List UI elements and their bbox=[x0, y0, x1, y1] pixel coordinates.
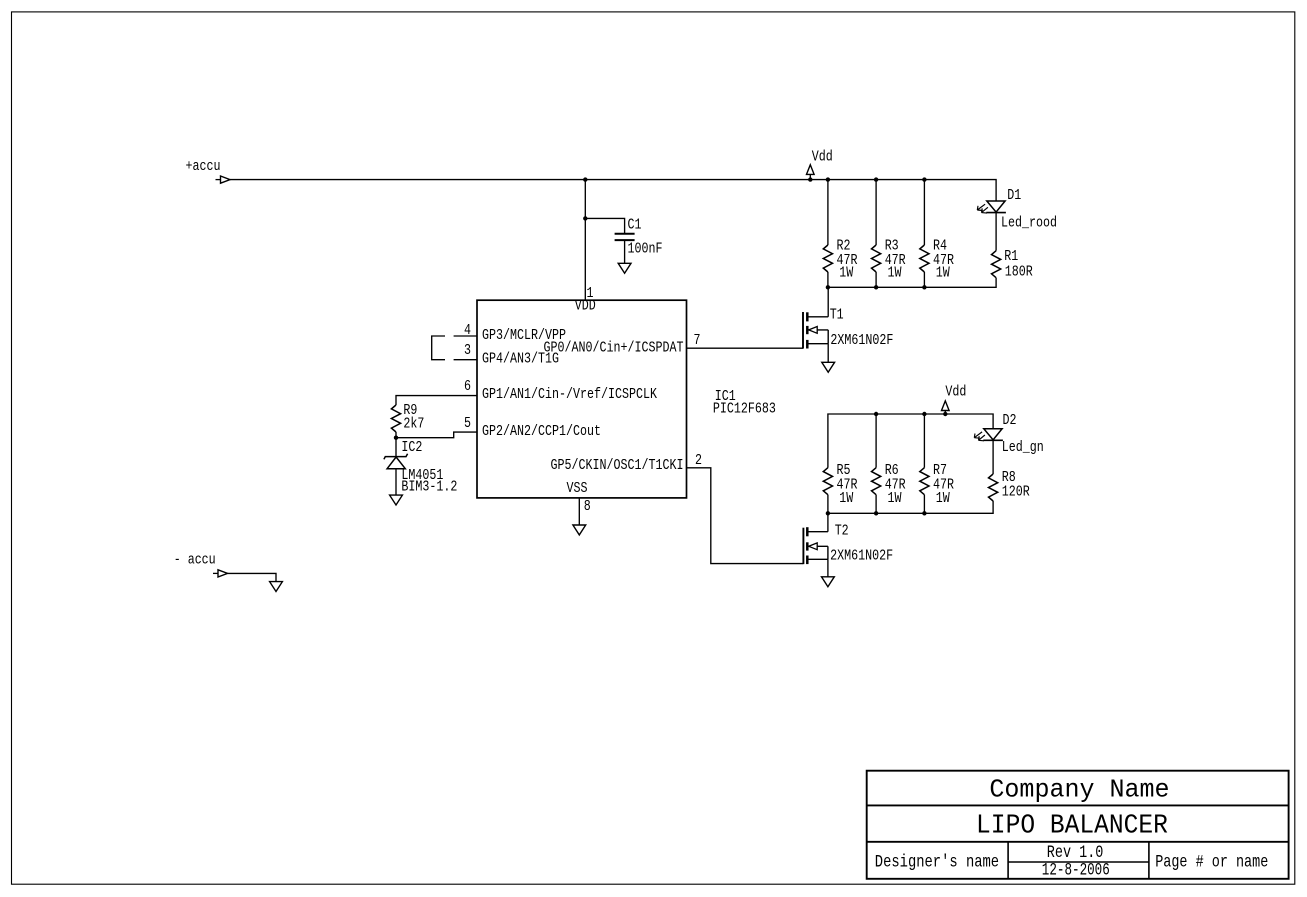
svg-text:1: 1 bbox=[587, 285, 594, 302]
junction T2 drain/rail bbox=[826, 511, 830, 515]
wire C1 branch bbox=[585, 218, 624, 233]
resistor R1 180R bbox=[992, 248, 1033, 281]
ground bbox=[270, 582, 283, 592]
svg-text:PIC12F683: PIC12F683 bbox=[713, 400, 776, 417]
wire bottom rail 1 bbox=[828, 278, 996, 288]
junction R6/rail bbox=[874, 412, 878, 416]
svg-text:6: 6 bbox=[464, 378, 471, 395]
svg-text:5: 5 bbox=[464, 415, 471, 432]
resistor R9 2k7 bbox=[391, 402, 424, 438]
LED D2 Led_gn bbox=[974, 412, 1044, 474]
svg-text:+accu: +accu bbox=[186, 158, 221, 175]
svg-text:Vdd: Vdd bbox=[945, 384, 966, 401]
junction Vdd2/rail bbox=[943, 412, 947, 416]
resistor R2 47R 1W bbox=[823, 180, 857, 288]
wire pin7 to T1 gate bbox=[687, 347, 804, 349]
power Vdd bbox=[942, 384, 967, 414]
svg-text:GP5/CKIN/OSC1/T1CKI: GP5/CKIN/OSC1/T1CKI bbox=[551, 457, 684, 474]
junction C1 tap bbox=[583, 216, 587, 220]
svg-text:IC2: IC2 bbox=[401, 439, 422, 456]
resistor R5 47R 1W bbox=[823, 462, 857, 513]
svg-text:BIM3-1.2: BIM3-1.2 bbox=[401, 479, 457, 496]
junction R2/rail bbox=[826, 177, 830, 181]
wire IC1 pin 8 bbox=[578, 498, 580, 525]
svg-text:VSS: VSS bbox=[567, 480, 588, 497]
svg-text:Led_gn: Led_gn bbox=[1002, 439, 1044, 456]
svg-text:1W: 1W bbox=[888, 490, 902, 507]
svg-text:Page # or name: Page # or name bbox=[1155, 853, 1268, 873]
svg-text:- accu: - accu bbox=[174, 552, 216, 569]
wire +accu rail bbox=[230, 180, 996, 201]
svg-text:120R: 120R bbox=[1002, 484, 1030, 501]
wire -accu to ground bbox=[228, 573, 277, 581]
svg-text:1W: 1W bbox=[936, 490, 950, 507]
junction R7/rail bbox=[922, 412, 926, 416]
svg-text:1W: 1W bbox=[839, 490, 853, 507]
svg-text:3: 3 bbox=[464, 342, 471, 359]
svg-text:D2: D2 bbox=[1003, 412, 1017, 429]
junction R4/rail bbox=[922, 177, 926, 181]
svg-text:Designer's name: Designer's name bbox=[875, 853, 999, 873]
svg-text:C1: C1 bbox=[628, 217, 642, 234]
pin 1 (VDD) bbox=[587, 285, 594, 302]
svg-text:GP1/AN1/Cin-/Vref/ICSPCLK: GP1/AN1/Cin-/Vref/ICSPCLK bbox=[482, 386, 657, 403]
svg-text:12-8-2006: 12-8-2006 bbox=[1042, 860, 1110, 880]
svg-text:1W: 1W bbox=[839, 264, 853, 281]
node -accu bbox=[174, 552, 228, 578]
IC IC1 PIC12F683 box bbox=[477, 297, 776, 498]
pin 2 GP5/CKIN/OSC1/T1CKI bbox=[551, 452, 703, 474]
svg-text:2: 2 bbox=[695, 452, 702, 469]
resistor R8 120R bbox=[989, 469, 1030, 501]
junction T1 drain/rail bbox=[826, 285, 830, 289]
capacitor C1 100nF bbox=[615, 217, 663, 264]
node +accu bbox=[186, 158, 231, 183]
svg-text:7: 7 bbox=[694, 332, 701, 349]
wire IC1 pin 1 feed bbox=[584, 180, 586, 301]
transistor T2 2XM61N02F bbox=[803, 513, 893, 577]
wire pin5 to node bbox=[396, 432, 477, 438]
junction R6 bottom bbox=[874, 511, 878, 515]
resistor R7 47R 1W bbox=[920, 414, 954, 513]
transistor T1 2XM61N02F bbox=[803, 287, 893, 362]
svg-text:GP2/AN2/CCP1/Cout: GP2/AN2/CCP1/Cout bbox=[482, 423, 601, 440]
junction R7 bottom bbox=[922, 511, 926, 515]
svg-text:1W: 1W bbox=[888, 264, 902, 281]
junction R3 bottom bbox=[874, 285, 878, 289]
ground bbox=[573, 525, 586, 535]
svg-text:2XM61N02F: 2XM61N02F bbox=[830, 332, 893, 349]
zener diode IC2 LM4051 BIM3-1.2 bbox=[384, 438, 458, 496]
svg-text:8: 8 bbox=[584, 498, 591, 515]
resistor R6 47R 1W bbox=[872, 414, 906, 513]
wire bottom rail 2 bbox=[828, 501, 993, 513]
svg-text:Vdd: Vdd bbox=[812, 149, 833, 166]
svg-text:Company Name: Company Name bbox=[989, 776, 1169, 805]
ground bbox=[618, 263, 631, 273]
pin 8 (VSS) bbox=[584, 498, 591, 515]
svg-text:GP0/AN0/Cin+/ICSPDAT: GP0/AN0/Cin+/ICSPDAT bbox=[544, 339, 684, 356]
resistor R4 47R 1W bbox=[920, 180, 954, 288]
svg-text:100nF: 100nF bbox=[628, 241, 663, 258]
pin 5 GP2/AN2/CCP1/Cout bbox=[464, 415, 601, 440]
svg-text:T1: T1 bbox=[830, 307, 844, 324]
ground bbox=[822, 577, 835, 587]
svg-text:Led_rood: Led_rood bbox=[1001, 214, 1057, 231]
power Vdd bbox=[807, 149, 833, 180]
wire pin2 to T2 gate bbox=[687, 468, 804, 564]
pin 3 GP4/AN3/T1G bbox=[454, 342, 559, 368]
svg-text:2XM61N02F: 2XM61N02F bbox=[830, 548, 893, 565]
ground bbox=[822, 362, 835, 372]
pin 4 GP3/MCLR/VPP bbox=[454, 322, 566, 344]
LED D1 Led_rood bbox=[977, 187, 1057, 251]
svg-text:T2: T2 bbox=[835, 523, 849, 540]
junction R4 bottom bbox=[922, 285, 926, 289]
svg-text:4: 4 bbox=[464, 322, 471, 339]
ground bbox=[390, 495, 403, 505]
pin 6 GP1/AN1/Cin-/Vref/ICSPCLK bbox=[464, 378, 657, 403]
pin 7 GP0/AN0/Cin+/ICSPDAT bbox=[544, 332, 701, 357]
svg-text:1W: 1W bbox=[936, 264, 950, 281]
junction Vdd/rail bbox=[808, 177, 812, 181]
junction rail/IC1-VDD bbox=[583, 177, 587, 181]
wire pin6 to R9 bbox=[396, 396, 477, 405]
junction R3/rail bbox=[874, 177, 878, 181]
svg-text:R1: R1 bbox=[1004, 248, 1018, 265]
resistor R3 47R 1W bbox=[872, 180, 906, 288]
svg-text:2k7: 2k7 bbox=[403, 415, 424, 432]
wire rail 2 bbox=[828, 414, 993, 468]
junction R9/IC2 bbox=[394, 436, 398, 440]
wire bracket pins 4-3 bbox=[432, 336, 445, 360]
svg-text:180R: 180R bbox=[1005, 264, 1033, 281]
svg-text:LIPO BALANCER: LIPO BALANCER bbox=[976, 812, 1168, 842]
svg-text:D1: D1 bbox=[1007, 187, 1021, 204]
